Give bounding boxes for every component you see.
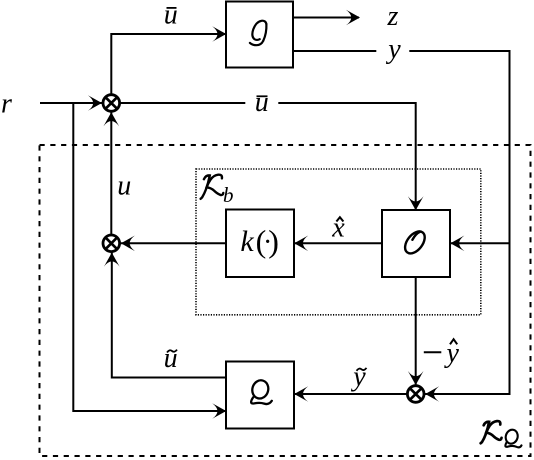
svg-text:): ) [268,223,279,259]
svg-text:x: x [331,213,345,244]
svg-text:u: u [117,171,131,202]
svg-text:y: y [350,361,366,392]
svg-text:k: k [240,225,254,258]
svg-text:b: b [223,183,234,207]
svg-text:u: u [255,87,269,118]
svg-text:y: y [385,34,401,65]
svg-text:u: u [164,343,178,374]
svg-text:z: z [387,1,399,32]
svg-text:r: r [1,89,12,120]
svg-text:u: u [164,0,178,31]
